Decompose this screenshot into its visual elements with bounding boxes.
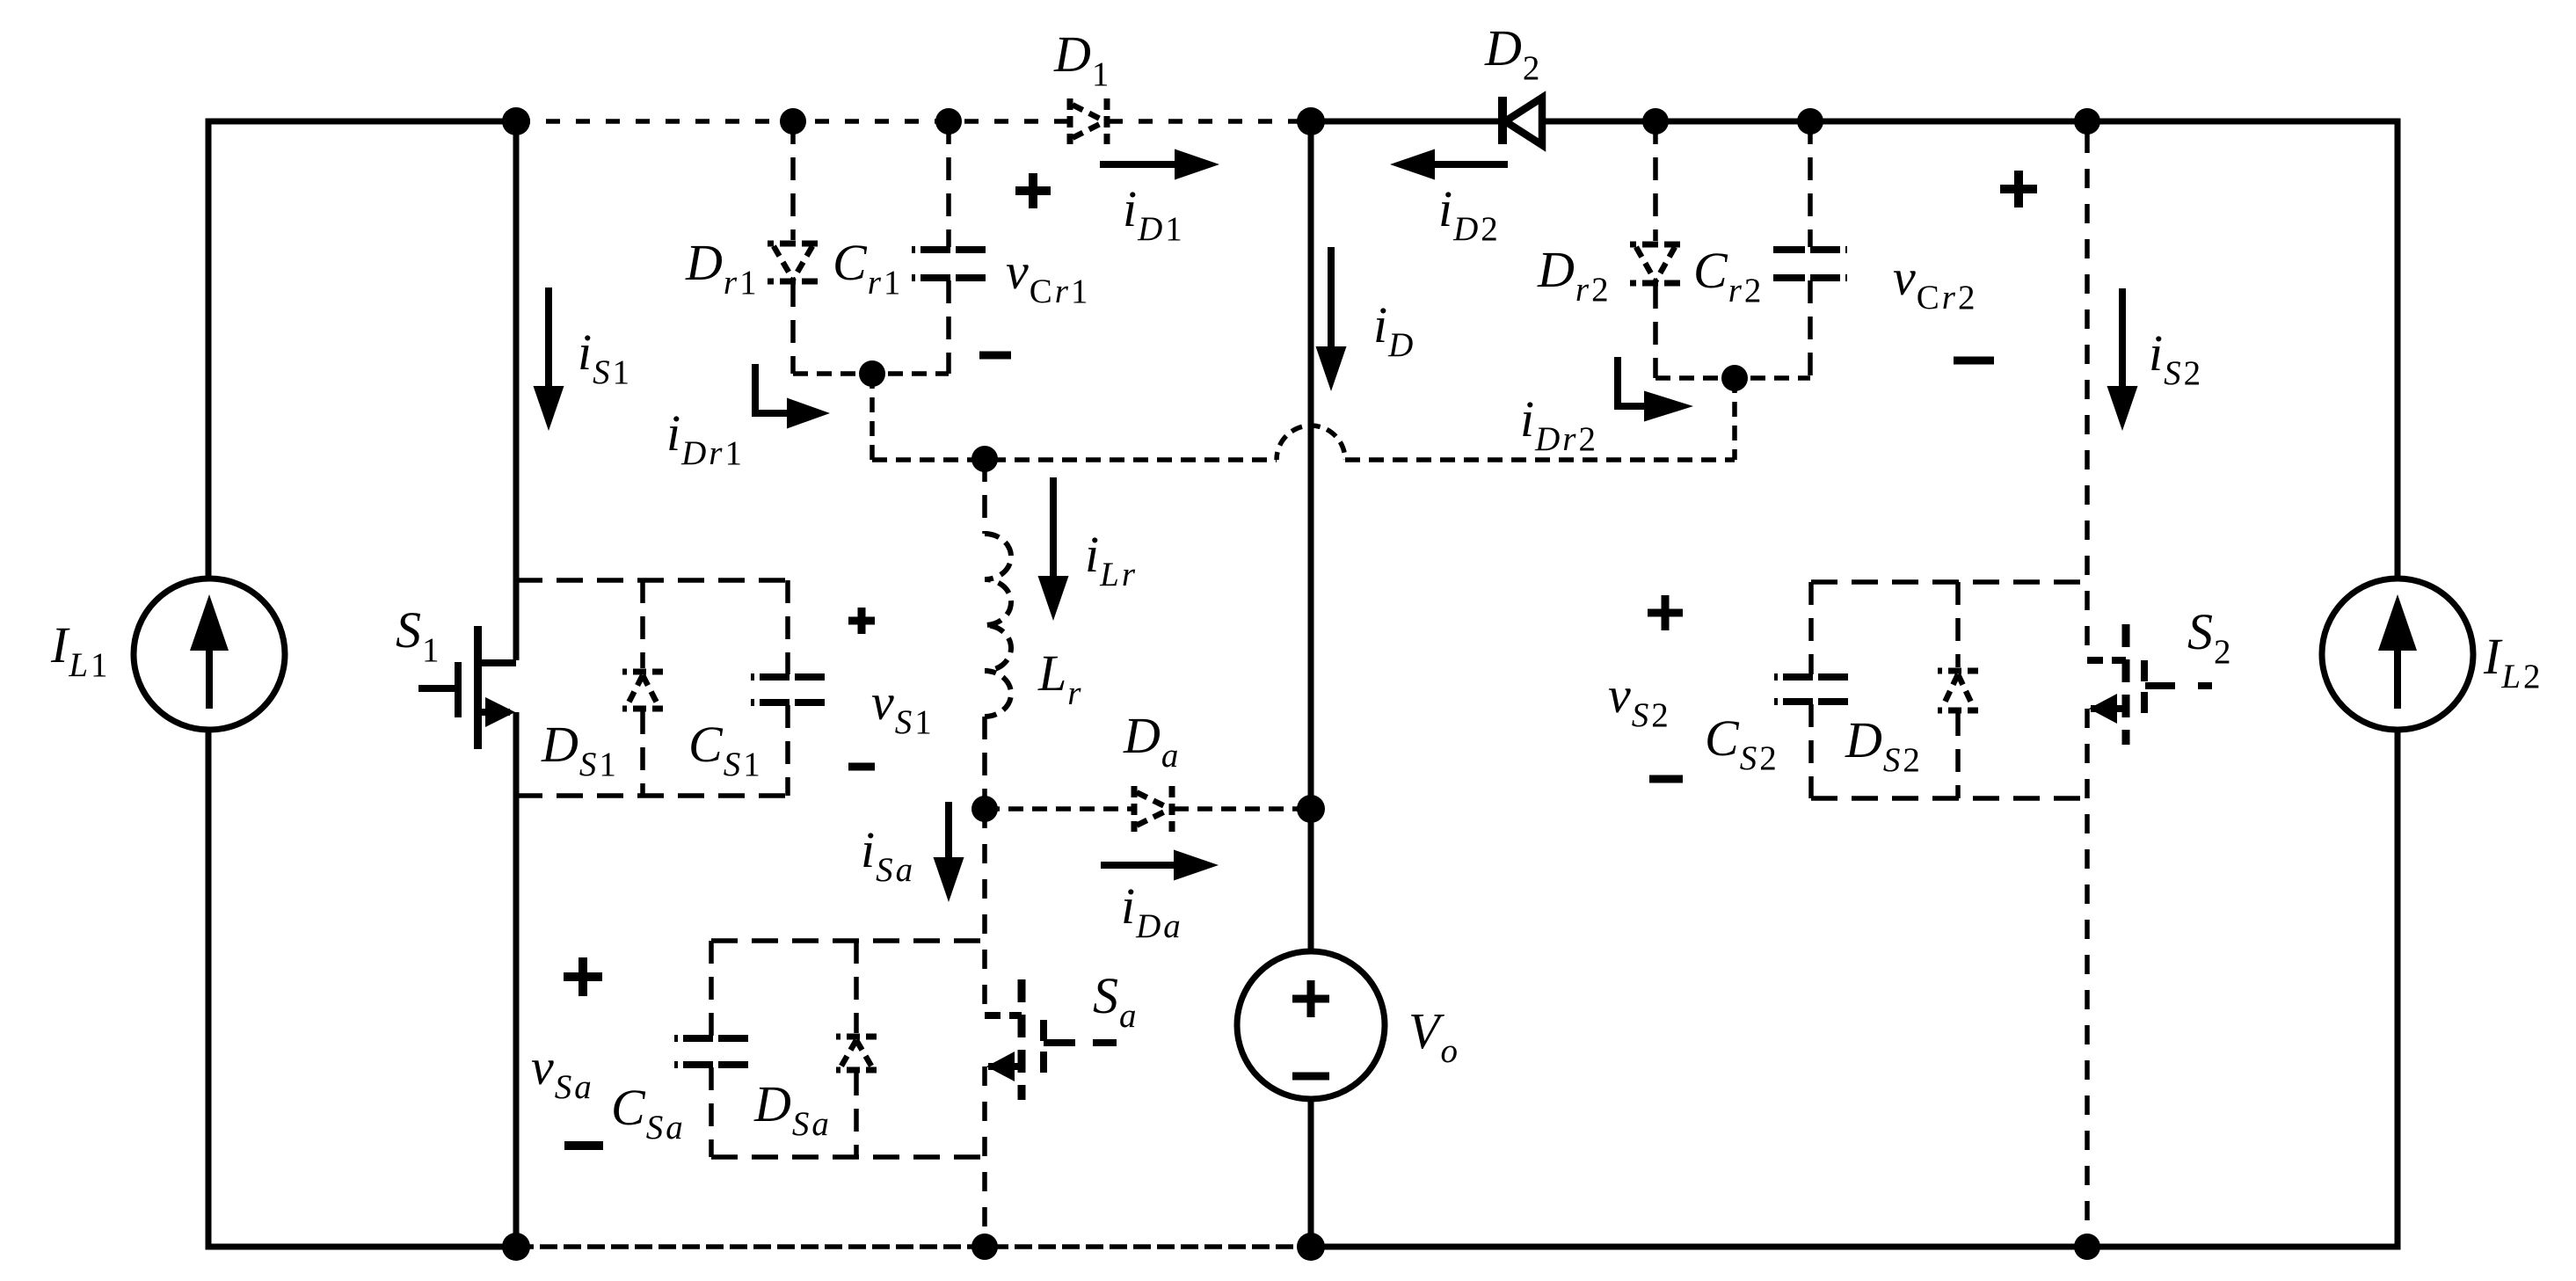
current arrow iLr: [1038, 477, 1069, 621]
wire Dr1-Cr1 join: [793, 371, 949, 376]
transistor S1: [418, 626, 516, 749]
label vCr1 plus: [1015, 173, 1051, 208]
label IL1: [50, 616, 108, 684]
label S1: [396, 601, 440, 669]
wire snubber box S1 top: [516, 578, 788, 583]
label iD2: [1438, 180, 1498, 248]
label vCr2 plus: [2000, 171, 2037, 207]
label vS1 minus: [848, 763, 875, 771]
label iDr2: [1520, 390, 1596, 458]
wire top-left rail: [208, 119, 516, 125]
node top Cr1: [935, 108, 962, 135]
current arrow iDr1: [755, 364, 830, 429]
inductor Lr: [985, 459, 1011, 807]
wire center upper: [1308, 121, 1314, 807]
node bottom Vo: [1297, 1233, 1325, 1261]
node S2 bottom: [2074, 1234, 2100, 1260]
transistor S2: [2087, 624, 2217, 745]
wire Dr2 stub down: [1732, 378, 1737, 460]
capacitor Cr2: [1773, 121, 1847, 378]
diode Dr2: [1630, 121, 1681, 378]
wire top rail dashed: [516, 119, 1311, 124]
current arrow iD1: [1100, 149, 1219, 180]
diode DSa: [836, 941, 877, 1157]
node top S1: [502, 107, 530, 135]
wire Dr1 stub down: [870, 374, 875, 460]
transistor Sa: [985, 979, 1117, 1100]
current arrow iDr2: [1618, 357, 1693, 422]
label iS1: [578, 324, 629, 391]
label vSa: [531, 1038, 592, 1106]
capacitor Cr1: [912, 121, 986, 374]
node Lr top: [971, 446, 998, 472]
diode D1: [1070, 98, 1107, 144]
wire S2 drain: [2085, 134, 2090, 660]
wire right edge lower: [2395, 729, 2401, 1250]
node top Dr2: [1642, 108, 1669, 135]
label vCr2 minus: [1954, 357, 1994, 365]
diode DS1: [622, 580, 663, 796]
wire bottom right rail: [1311, 1244, 2398, 1250]
label Da: [1123, 707, 1178, 775]
wire Da right: [1174, 806, 1311, 812]
label Dr1: [685, 234, 757, 302]
wire top rail right-b: [1542, 119, 2398, 125]
label CS2: [1705, 710, 1777, 777]
wire aux horizontal right: [1345, 457, 1735, 462]
wire bottom-left rail: [206, 1244, 517, 1250]
node Da out: [1297, 795, 1325, 823]
wire snubber box S2 bottom: [1811, 796, 2087, 801]
label iLr: [1085, 526, 1136, 593]
label vS1 plus: [848, 608, 875, 634]
wire Da left: [985, 806, 1132, 812]
node Dr1Cr1: [859, 360, 885, 387]
source Vo: [1237, 809, 1385, 1247]
wire aux horizontal left: [872, 457, 1277, 462]
wire Sa source: [982, 1066, 987, 1247]
label IL2: [2483, 628, 2541, 695]
diode Da: [1134, 786, 1172, 832]
wire Sa drain: [982, 809, 987, 1015]
label Cr1: [833, 234, 900, 302]
wire snubber box S2 top: [1811, 579, 2087, 585]
label D2: [1484, 19, 1539, 87]
label Cr2: [1693, 242, 1761, 309]
wire right edge upper: [2395, 119, 2401, 580]
label vCr1 minus: [979, 352, 1011, 360]
label vSa plus: [564, 957, 602, 996]
node Sa bottom: [971, 1234, 998, 1260]
current arrow iDa: [1101, 850, 1219, 881]
wire left edge upper: [206, 119, 212, 580]
label DS1: [541, 716, 616, 783]
current source IL2: [2322, 579, 2473, 730]
label iDr1: [666, 404, 742, 472]
label D1: [1053, 25, 1109, 93]
label vS2 plus: [1648, 595, 1683, 630]
label DS2: [1845, 711, 1920, 779]
diode DS2: [1938, 582, 1978, 798]
capacitor CSa: [674, 941, 748, 1157]
label iDa: [1121, 877, 1181, 945]
label Lr: [1037, 644, 1081, 712]
label CSa: [611, 1079, 683, 1146]
label vSa minus: [564, 1141, 603, 1150]
label S2: [2187, 603, 2231, 671]
wire S2 source: [2085, 709, 2090, 1247]
wire Sa box bottom: [711, 1154, 985, 1160]
label vS2 minus: [1649, 775, 1683, 783]
wire snubber box S1 bottom: [516, 793, 788, 798]
wire hop over center: [1277, 426, 1345, 460]
label vS2: [1608, 666, 1669, 734]
capacitor CS1: [751, 580, 825, 796]
wire top rail right-a: [1311, 119, 1503, 125]
diode Dr1: [768, 121, 819, 374]
node top S2: [2074, 108, 2100, 135]
diode D2: [1503, 97, 1542, 145]
node Lr bottom: [971, 796, 998, 822]
wire S1 source: [513, 712, 520, 1247]
wire S1 drain: [513, 121, 520, 660]
label Dr2: [1537, 241, 1609, 309]
current arrow iS2: [2107, 288, 2138, 431]
node top Dr1: [780, 108, 806, 135]
node top center: [1297, 107, 1325, 135]
label iSa: [861, 821, 913, 889]
node top Cr2: [1797, 108, 1823, 135]
current arrow iS1: [534, 287, 564, 431]
node Dr2Cr2: [1721, 365, 1748, 391]
capacitor CS2: [1774, 582, 1848, 798]
label iD: [1373, 296, 1413, 364]
current arrow iD: [1316, 247, 1347, 391]
wire bottom dashed rail: [516, 1244, 1311, 1249]
label iS2: [2149, 324, 2201, 392]
current arrow iSa: [934, 802, 964, 902]
wire Dr2-Cr2 join: [1655, 375, 1810, 381]
label Sa: [1093, 967, 1137, 1035]
label vCr1: [1006, 243, 1088, 310]
label vCr2: [1893, 249, 1975, 317]
label CS1: [688, 716, 760, 783]
label DSa: [753, 1075, 829, 1143]
label Vo: [1408, 1002, 1458, 1070]
current arrow iD2: [1390, 149, 1508, 180]
current source IL1: [134, 579, 285, 730]
label iD1: [1123, 180, 1182, 248]
wire Sa box top: [711, 938, 985, 943]
label vS1: [871, 673, 932, 741]
wire left edge lower: [206, 729, 212, 1250]
node bottom S1: [502, 1233, 530, 1261]
